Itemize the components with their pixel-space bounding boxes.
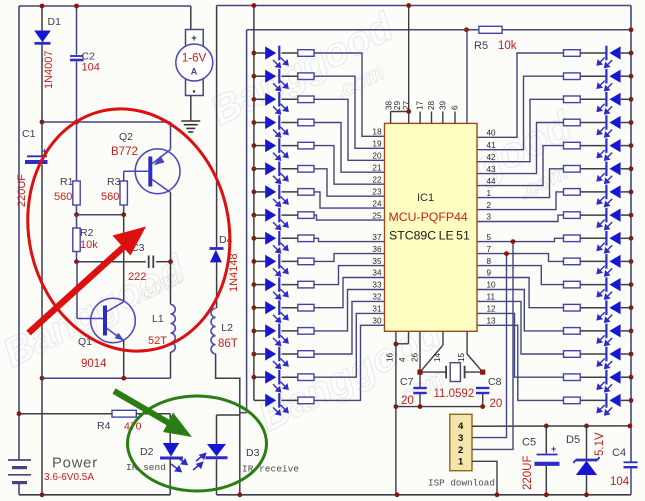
annotation green arrow — [114, 391, 192, 437]
svg-text:20: 20 — [372, 152, 382, 161]
svg-text:Power: Power — [52, 456, 98, 472]
wire left rail to LED row 6 — [254, 168, 265, 170]
wire right rail to LED row 3 — [621, 98, 631, 100]
junction left rail row 5 — [252, 143, 257, 148]
svg-text:C7: C7 — [400, 376, 414, 388]
svg-text:B772: B772 — [111, 146, 138, 158]
wire left rail to LED row 9 — [254, 237, 265, 239]
svg-text:10k: 10k — [80, 239, 98, 251]
resistor left row 6 — [298, 166, 314, 173]
junction crystal right — [480, 370, 485, 375]
svg-text:IR send: IR send — [126, 462, 166, 473]
wire left row 5 to MCU pin 22 — [314, 146, 385, 185]
wire rail to R2 — [76, 215, 78, 228]
svg-text:20: 20 — [490, 398, 503, 410]
LED D203 right row 3 — [597, 92, 620, 114]
wire right rail to LED row 15 — [621, 376, 631, 378]
junction top rail / D1 — [40, 4, 45, 9]
svg-text:5.1V: 5.1V — [594, 432, 606, 456]
junction D5 top — [584, 424, 589, 429]
wire right rail to LED row 13 — [621, 330, 631, 332]
svg-text:28: 28 — [427, 100, 436, 110]
wire ISP pin1 to ground rail — [472, 461, 497, 495]
svg-text:4: 4 — [398, 357, 407, 362]
wire right rail to LED row 8 — [621, 214, 631, 216]
LED D216 right row 16 — [597, 393, 620, 415]
svg-text:2: 2 — [458, 445, 463, 456]
resistor right row 13 — [564, 328, 581, 335]
svg-text:22: 22 — [372, 175, 382, 184]
svg-text:8: 8 — [487, 257, 492, 266]
svg-text:220UF: 220UF — [16, 174, 28, 207]
junction left rail row 3 — [252, 97, 257, 102]
svg-text:ISP download: ISP download — [428, 478, 495, 489]
wire node to L1 — [170, 262, 172, 305]
wire pin 27 to top rail — [408, 6, 410, 124]
svg-text:35: 35 — [372, 257, 382, 266]
wire left row 4 to MCU pin 21 — [314, 123, 385, 173]
wire left row 14 to MCU pin 32 — [314, 301, 385, 354]
wire pin14 diagonal to crystal — [420, 345, 443, 372]
resistor left row 9 — [298, 235, 314, 242]
junction Q2 collector / C3 / L1 — [168, 259, 173, 264]
wire left rail to LED row 15 — [254, 376, 265, 378]
wire top rail to C2 — [76, 6, 78, 55]
svg-text:Q2: Q2 — [119, 131, 133, 143]
junction C4 top / right rail — [628, 424, 633, 429]
wire left row 16 to MCU pin 30 — [314, 325, 385, 400]
resistor right row 2 — [564, 73, 581, 80]
wire left row 8 to MCU pin 25 — [314, 215, 385, 220]
wire LED to resistor left row 10 — [282, 260, 298, 262]
wire ISP pin2 to MCU pin5 — [472, 242, 513, 450]
junction crystal gnd rail — [394, 404, 399, 409]
junction R5 rail / MCU pin 9 wire — [464, 27, 469, 32]
wire R2 bottom to C3 — [77, 261, 146, 263]
junction left rail row 8 — [252, 213, 257, 218]
wire bottom ground rail — [217, 494, 632, 496]
wire Q1 base up — [76, 262, 78, 319]
resistor right row 8 — [564, 212, 581, 219]
wire Q2 base to R3 — [123, 171, 125, 181]
svg-text:14: 14 — [433, 352, 442, 362]
resistor R3 560 — [120, 181, 127, 205]
svg-text:20: 20 — [401, 395, 414, 407]
resistor right row 12 — [564, 304, 581, 311]
junction C1 rail / emitter rail — [40, 376, 45, 381]
wire right row 16 to MCU pin 13 — [477, 325, 564, 400]
wire MCU pin9 to R5 rail — [466, 30, 468, 124]
wire pin 4 stub — [408, 331, 410, 344]
wire down to D3 — [216, 415, 218, 444]
wire left rail to LED row 13 — [254, 330, 265, 332]
wire LED to resistor left row 15 — [282, 376, 298, 378]
wire C8 to gnd rail — [482, 394, 484, 407]
resistor right row 6 — [564, 166, 581, 173]
svg-text:104: 104 — [82, 62, 100, 74]
wire R2 to C3 rail — [76, 252, 78, 262]
svg-text:MCU-PQFP44: MCU-PQFP44 — [389, 210, 468, 224]
LED D104 left row 4 — [265, 115, 288, 137]
svg-text:39: 39 — [439, 100, 448, 110]
capacitor C1 220UF — [25, 146, 48, 162]
junction right rail row 4 — [629, 120, 634, 125]
junction right rail row 11 — [629, 282, 634, 287]
svg-text:10k: 10k — [498, 40, 517, 52]
wire left rail to LED row 16 — [254, 399, 265, 401]
LED D210 right row 10 — [597, 254, 620, 276]
wire D3 cathode down — [216, 459, 218, 495]
diode D3 IR receive — [193, 444, 228, 470]
junction right rail row 13 — [629, 329, 634, 334]
junction left rail row 2 — [252, 74, 257, 79]
svg-text:R1: R1 — [60, 176, 74, 188]
LED D107 left row 7 — [265, 185, 288, 207]
resistor left row 3 — [298, 96, 314, 103]
svg-text:37: 37 — [372, 233, 382, 242]
junction C5 gnd — [544, 492, 549, 497]
junction C5 top — [544, 424, 549, 429]
svg-text:D2: D2 — [140, 446, 154, 458]
wire resistor to LED right row 3 — [580, 98, 606, 100]
junction pin5 / ISP2 — [511, 239, 516, 244]
svg-text:1: 1 — [458, 457, 464, 468]
annotation green ellipse — [128, 396, 267, 491]
LED D214 right row 14 — [597, 347, 620, 369]
connector J1 ISP — [450, 414, 472, 470]
wire left rail to LED row 3 — [254, 98, 265, 100]
junction right rail row 5 — [629, 143, 634, 148]
wire right rail to LED row 6 — [621, 168, 631, 170]
svg-text:24: 24 — [372, 199, 382, 208]
MCU top pin stubs — [391, 112, 455, 124]
svg-text:86T: 86T — [218, 338, 238, 350]
junction right rail row 2 — [629, 74, 634, 79]
junction gnd rail bottom — [395, 492, 400, 497]
junction left rail row 1 — [252, 51, 257, 56]
wire C1 down to emitter rail — [41, 165, 43, 379]
wire right row 1 to MCU pin 40 — [477, 53, 564, 137]
junction right rail row 16 — [629, 398, 634, 403]
svg-text:4: 4 — [458, 421, 464, 432]
svg-text:29: 29 — [393, 100, 402, 110]
svg-text:1: 1 — [487, 189, 492, 198]
wire resistor to LED right row 16 — [580, 399, 606, 401]
wire left row 12 to MCU pin 34 — [314, 278, 385, 308]
svg-text:16: 16 — [386, 352, 395, 362]
svg-text:12: 12 — [487, 305, 497, 314]
svg-text:19: 19 — [372, 140, 382, 149]
resistor R2 10k — [73, 228, 80, 252]
wire left row 6 to MCU pin 23 — [314, 169, 385, 196]
svg-text:10: 10 — [487, 281, 497, 290]
LED D110 left row 10 — [265, 254, 288, 276]
LED D105 left row 5 — [265, 138, 288, 160]
wire LED to resistor left row 2 — [282, 75, 298, 77]
resistor right row 7 — [564, 189, 581, 196]
LED D206 right row 6 — [597, 162, 620, 184]
wire top rail right section — [217, 5, 631, 7]
svg-text:27: 27 — [402, 100, 411, 110]
wire D2 cathode to bottom rail — [169, 460, 171, 495]
LED D113 left row 13 — [265, 324, 288, 346]
svg-text:+: + — [551, 444, 556, 454]
wire inner border jog — [240, 412, 247, 414]
svg-text:15: 15 — [457, 352, 466, 362]
junction pin 38 jog — [406, 109, 411, 114]
svg-text:21: 21 — [372, 163, 382, 172]
svg-text:560: 560 — [54, 191, 72, 203]
junction right rail row 9 — [629, 236, 634, 241]
svg-text:R5: R5 — [474, 40, 488, 52]
wire crystal ground rail — [396, 406, 483, 408]
inductor L2 86T — [211, 308, 216, 354]
wire left rail to LED row 12 — [254, 307, 265, 309]
junction right rail row 8 — [629, 213, 634, 218]
wire right rail to LED row 4 — [621, 122, 631, 124]
junction top rail / pin27 wire — [406, 3, 411, 8]
wire pin4 jog — [396, 343, 409, 345]
svg-text:33: 33 — [372, 281, 382, 290]
wire resistor to LED right row 11 — [580, 284, 606, 286]
wire right rail to LED row 16 — [621, 399, 631, 401]
wire left row 13 to MCU pin 33 — [314, 290, 385, 331]
junction R2 bottom / Q1 base — [74, 259, 79, 264]
svg-text:3: 3 — [487, 213, 492, 222]
LED D112 left row 12 — [265, 300, 288, 322]
capacitor C2 104 — [70, 56, 84, 60]
LED D208 right row 8 — [597, 208, 620, 230]
LED D101 left row 1 — [265, 46, 288, 68]
junction right rail row 10 — [629, 259, 634, 264]
resistor left row 5 — [298, 142, 314, 149]
wire right rail to LED row 14 — [621, 353, 631, 355]
svg-text:L1: L1 — [152, 313, 164, 325]
wire LED to resistor left row 8 — [282, 214, 298, 216]
wire LED to resistor left row 4 — [282, 122, 298, 124]
wire LED to resistor left row 16 — [282, 399, 298, 401]
junction inner rail / right rail — [629, 27, 634, 32]
LED D205 right row 5 — [597, 138, 620, 160]
wire left rail to LED row 4 — [254, 122, 265, 124]
wire resistor to LED right row 1 — [580, 52, 606, 54]
annotation red arrow — [29, 227, 147, 334]
wire LED to resistor left row 11 — [282, 284, 298, 286]
wire R4 to D2 — [136, 413, 170, 415]
junction left rail row 13 — [252, 329, 257, 334]
svg-text:220UF: 220UF — [522, 455, 534, 490]
LED D213 right row 13 — [597, 324, 620, 346]
wire to bottom rail — [41, 378, 43, 495]
junction left rail row 7 — [252, 190, 257, 195]
resistor left row 15 — [298, 374, 314, 381]
wire left rail to LED row 10 — [254, 260, 265, 262]
svg-text:23: 23 — [372, 187, 382, 196]
wire crystal right node — [465, 371, 483, 373]
resistor left row 2 — [298, 73, 314, 80]
wire right row 8 to MCU pin 3 — [477, 215, 564, 221]
diode D2 IR send — [160, 443, 187, 472]
wire resistor to LED right row 14 — [580, 353, 606, 355]
wire motor to ground — [190, 96, 192, 121]
resistor right row 3 — [564, 96, 581, 103]
annotation red ellipse — [6, 90, 252, 370]
resistor right row 9 — [564, 235, 581, 242]
wire D1 to C1 — [41, 45, 43, 156]
wire resistor to LED right row 2 — [580, 75, 606, 77]
junction Q1 emitter — [121, 376, 126, 381]
LED D103 left row 3 — [265, 92, 288, 114]
svg-text:C5: C5 — [522, 437, 536, 449]
svg-text:2: 2 — [487, 201, 492, 210]
junction ISP gnd — [495, 492, 500, 497]
wire left row 9 to MCU pin 37 — [314, 238, 385, 241]
wire right row 5 to MCU pin 44 — [477, 146, 564, 186]
svg-text:C8: C8 — [488, 376, 502, 388]
junction D5 gnd — [584, 492, 589, 497]
wire LED to resistor left row 14 — [282, 353, 298, 355]
wire R3 bottom to Q1 collector — [123, 215, 125, 302]
wire right row 11 to MCU pin 8 — [477, 266, 564, 285]
IC U1 MCU STC89C LE51 — [385, 123, 478, 331]
resistor left row 7 — [298, 189, 314, 196]
wire right rail to LED row 11 — [621, 284, 631, 286]
svg-text:R2: R2 — [80, 227, 94, 239]
wire right row 3 to MCU pin 42 — [477, 99, 564, 161]
resistor left row 14 — [298, 351, 314, 358]
svg-text:32: 32 — [372, 293, 382, 302]
wire left rail to LED row 7 — [254, 191, 265, 193]
LED D102 left row 2 — [265, 69, 288, 91]
resistor right row 16 — [564, 397, 581, 404]
wire Q2 collector down — [170, 193, 172, 262]
wire pin38 jog — [391, 111, 409, 113]
wire pin 14 stub — [442, 331, 444, 345]
junction R1 top — [74, 120, 79, 125]
LED D204 right row 4 — [597, 115, 620, 137]
wire left rail to LED row 2 — [254, 75, 265, 77]
wire down to Q2 emitter — [170, 122, 172, 150]
wire top rail to D1 — [41, 6, 43, 31]
wire left row 15 to MCU pin 31 — [314, 313, 385, 377]
svg-text:560: 560 — [101, 191, 119, 203]
capacitor C4 104 — [624, 462, 638, 495]
wire pin 15 stub — [466, 331, 468, 354]
wire pin15 diagonal to crystal — [467, 354, 483, 372]
junction left rail row 14 — [252, 352, 257, 357]
svg-text:41: 41 — [487, 141, 497, 150]
wire LED to resistor left row 5 — [282, 145, 298, 147]
LED D215 right row 15 — [597, 370, 620, 392]
svg-text:3: 3 — [458, 433, 463, 444]
svg-text:L2: L2 — [221, 322, 233, 334]
wire inner VCC rail to R5 — [247, 29, 479, 31]
wire right rail to LED row 9 — [621, 237, 631, 239]
junction battery + / R4 wire — [17, 411, 22, 416]
wire right row 10 to MCU pin 7 — [477, 254, 564, 262]
resistor left row 10 — [298, 258, 314, 265]
wire resistor to LED right row 6 — [580, 168, 606, 170]
wire left rail to LED row 11 — [254, 284, 265, 286]
wire to R1 — [76, 122, 78, 181]
wire left border of left box — [18, 6, 20, 449]
wire L2 to bottom rail — [216, 354, 240, 495]
wire down to D2 — [169, 414, 171, 443]
wire LED to resistor left row 13 — [282, 330, 298, 332]
capacitor C8 20 — [476, 388, 489, 393]
svg-text:44: 44 — [487, 177, 497, 186]
resistor R4 470 — [112, 410, 136, 417]
svg-text:222: 222 — [128, 271, 146, 283]
LED D212 right row 12 — [597, 300, 620, 322]
LED D207 right row 7 — [597, 185, 620, 207]
svg-text:9: 9 — [487, 269, 492, 278]
svg-text:1-6V: 1-6V — [182, 53, 207, 65]
junction crystal left — [417, 370, 422, 375]
wire resistor to LED right row 5 — [580, 145, 606, 147]
wire resistor to LED right row 8 — [580, 214, 606, 216]
wire V+ branch to Q2 emitter — [42, 121, 171, 123]
LED D108 left row 8 — [265, 208, 288, 230]
wire left rail to LED row 1 — [254, 52, 265, 54]
svg-text:D5: D5 — [566, 434, 580, 446]
svg-text:9014: 9014 — [81, 358, 107, 370]
wire LED to resistor left row 7 — [282, 191, 298, 193]
svg-text:7: 7 — [487, 245, 492, 254]
svg-text:36: 36 — [372, 245, 382, 254]
resistor right row 14 — [564, 351, 581, 358]
svg-text:43: 43 — [487, 165, 497, 174]
svg-text:34: 34 — [372, 269, 382, 278]
svg-text:IC1: IC1 — [417, 192, 434, 204]
wire D4 to L2 — [216, 262, 218, 308]
wire pin26 / C7 top — [419, 331, 421, 387]
wire top rail left box — [19, 5, 191, 7]
inductor L1 52T — [171, 305, 176, 353]
wire right row 12 to MCU pin 9 — [477, 278, 564, 308]
junction right rail row 12 — [629, 305, 634, 310]
wire C3 to L1 node — [156, 261, 171, 263]
resistor left row 11 — [298, 281, 314, 288]
svg-text:3.6-6V0.5A: 3.6-6V0.5A — [44, 472, 94, 483]
junction R3 bottom / Q1 collector — [121, 212, 126, 217]
svg-text:1N4007: 1N4007 — [43, 50, 55, 89]
LED D114 left row 14 — [265, 347, 288, 369]
LED D106 left row 6 — [265, 162, 288, 184]
wire left row 11 to MCU pin 35 — [314, 266, 385, 285]
wire D3 anode stub — [217, 414, 240, 416]
transistor Q1 9014 — [77, 298, 135, 343]
resistor right row 4 — [564, 119, 581, 126]
junction C7 gnd — [418, 404, 423, 409]
LED D115 left row 15 — [265, 370, 288, 392]
LED D201 right row 1 — [597, 46, 620, 68]
wire left row 7 to MCU pin 24 — [314, 192, 385, 208]
junction D3 branch / ground rail — [237, 492, 242, 497]
wire inner border down — [246, 30, 248, 413]
motor M1 1-6V battery holder — [176, 6, 213, 96]
svg-text:6: 6 — [451, 105, 460, 110]
capacitor C7 20 — [413, 388, 426, 393]
wire resistor to LED right row 10 — [580, 260, 606, 262]
junction right rail row 7 — [629, 190, 634, 195]
wire right row 9 to MCU pin 5 — [477, 238, 564, 241]
LED D211 right row 11 — [597, 277, 620, 299]
wire right row 13 to MCU pin 10 — [477, 290, 564, 331]
svg-text:C1: C1 — [22, 128, 36, 140]
svg-text:A: A — [191, 67, 198, 77]
wire C7 to gnd rail — [419, 394, 421, 407]
